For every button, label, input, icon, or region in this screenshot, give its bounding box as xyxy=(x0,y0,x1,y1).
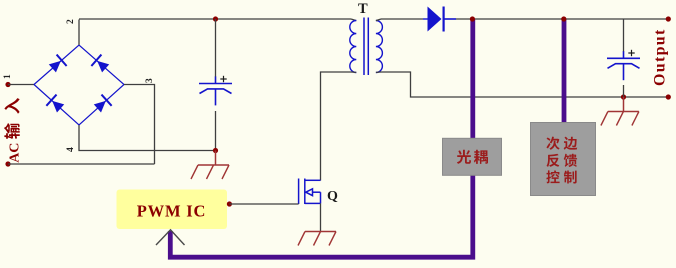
wire node 4 to primary ground rail xyxy=(79,125,216,151)
wire primary top hook xyxy=(351,19,356,21)
wire primary bottom hook xyxy=(351,71,356,73)
wire C1 bottom lead xyxy=(215,111,217,151)
wire node 2 riser xyxy=(78,20,80,46)
transistor Q (N-MOSFET) xyxy=(299,179,321,205)
wire C2 top lead xyxy=(623,19,625,52)
junction top rail / C1 xyxy=(213,16,218,21)
wire C2 bottom lead xyxy=(623,85,625,97)
wire feedback path (thick purple): optocoupler drop, bottom run, arrow riser xyxy=(170,19,473,257)
svg-text:Output: Output xyxy=(652,28,669,86)
transformer T secondary winding xyxy=(376,21,383,73)
junction Output+ terminal xyxy=(666,16,671,21)
svg-text:AC: AC xyxy=(7,143,22,163)
bridge diode D1 (node1 to node2) xyxy=(47,55,66,75)
label 光耦 xyxy=(457,150,471,164)
plus sign of C2 (output electrolytic) xyxy=(628,50,634,56)
svg-text:PWM IC: PWM IC xyxy=(137,201,206,220)
wire AC lead 2 xyxy=(8,163,155,165)
svg-text:4: 4 xyxy=(66,147,76,152)
wire secondary top to D5 anode xyxy=(381,18,423,20)
label AC输入 (rotated) xyxy=(4,98,22,163)
wire secondary bottom to output return rail xyxy=(381,72,668,97)
optocoupler box 光耦 xyxy=(443,138,502,175)
ground Q source ground xyxy=(298,232,336,246)
svg-text:3: 3 xyxy=(145,78,155,83)
junction AC input terminal lower xyxy=(5,161,10,166)
junction output return / C2 xyxy=(621,94,626,99)
arrow feedback into PWM IC xyxy=(156,230,185,245)
wire Q source to ground xyxy=(320,203,322,231)
svg-text:2: 2 xyxy=(66,19,76,24)
bridge diode D4 (node4 to node3) xyxy=(92,95,111,115)
ground primary ground xyxy=(191,165,229,179)
transformer T core xyxy=(364,18,368,76)
junction AC input terminal upper xyxy=(5,82,10,87)
label 次边反馈控制 xyxy=(546,137,559,150)
svg-text:T: T xyxy=(358,1,368,17)
wire C1 top lead xyxy=(215,19,217,77)
bridge diode D2 (node3 to node2) xyxy=(91,55,110,75)
capacitor C2 (output electrolytic) xyxy=(607,51,640,80)
junction Output- terminal xyxy=(666,94,671,99)
junction primary ground node xyxy=(213,148,218,153)
junction PWM IC gate drive output xyxy=(227,201,232,206)
wire AC lead 1 to bridge left vertex xyxy=(8,84,34,86)
plus sign of C1 (bulk electrolytic) xyxy=(220,76,226,82)
wire primary ground stem xyxy=(215,151,217,166)
bridge diode D3 (node4 to node1) xyxy=(46,95,65,115)
svg-text:1: 1 xyxy=(3,74,13,79)
wire top output rail xyxy=(456,18,668,20)
wire feedback tap to secondary control (thick purple) xyxy=(562,19,567,125)
transformer T primary winding xyxy=(350,21,357,73)
wire gate drive wire to Q xyxy=(229,203,298,205)
wire secondary bottom hook xyxy=(376,71,381,73)
capacitor C1 (bulk electrolytic) xyxy=(199,77,232,106)
IC PWM controller box xyxy=(117,190,228,230)
secondary feedback control box 次边反馈控制 xyxy=(531,123,596,196)
wire node 3 down to AC lead 2 xyxy=(124,85,155,165)
wire secondary top hook xyxy=(376,19,381,21)
wire output ground stem xyxy=(623,97,625,112)
rectifier diode D5 xyxy=(423,7,456,32)
svg-text:Q: Q xyxy=(327,189,338,204)
wire primary bottom to Q drain xyxy=(321,72,352,181)
ground output ground xyxy=(601,112,639,126)
junction top rail / optocoupler feedback xyxy=(470,16,475,21)
wire top rail left (node2 to transformer primary) xyxy=(79,18,351,20)
wire bridge diamond edges xyxy=(34,45,124,125)
junction top rail / secondary control xyxy=(561,16,566,21)
